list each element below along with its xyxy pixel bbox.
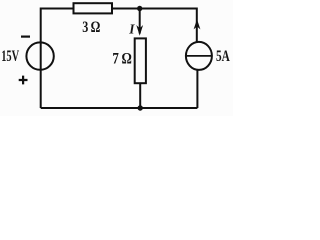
wire right branch lower (current source to bottom-right corner) [196, 70, 198, 108]
current source I1 circle (5A) [186, 42, 212, 70]
current source arrow head (pointing up) [194, 19, 201, 29]
polarity minus sign [21, 35, 30, 37]
wire right branch upper (top-right corner down to current source) [196, 8, 198, 43]
svg-text:5A: 5A [216, 48, 230, 65]
resistor R1 3ohm box [74, 3, 113, 13]
voltage source U1 circle (15V) [26, 42, 53, 69]
wire bottom (bottom-left corner to bottom-right corner) [41, 107, 198, 109]
wire left branch (top-left corner down through source to bottom-left corner) [40, 8, 42, 109]
svg-text:I: I [128, 23, 135, 38]
svg-text:3 Ω: 3 Ω [82, 19, 100, 36]
resistor R2 7ohm box (vertical) [135, 38, 146, 83]
current arrow I (down arrowhead) [136, 25, 143, 36]
svg-text:15V: 15V [1, 48, 19, 65]
wire middle branch lower (R2 to bottom junction) [139, 83, 141, 108]
polarity plus sign [19, 76, 28, 85]
current source bar (horizontal diameter) [186, 55, 212, 57]
junction node top (dot) [137, 6, 142, 11]
junction node bottom (dot) [138, 105, 143, 110]
svg-text:7 Ω: 7 Ω [112, 50, 132, 67]
wire top segment right of R1 to top-right corner [112, 8, 197, 10]
wire top segment left of R1 [41, 8, 74, 10]
wire middle branch upper (junction down to R2) [139, 9, 141, 34]
